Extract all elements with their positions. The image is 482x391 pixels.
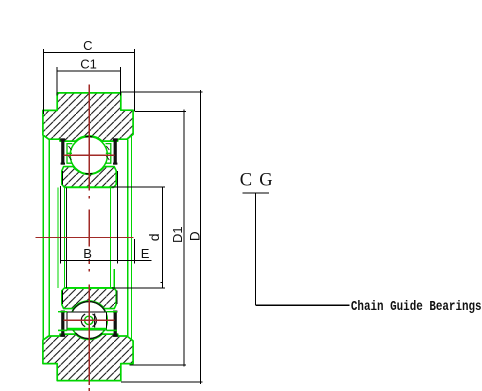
dimension B / E line: [60, 171, 151, 264]
svg-text:G: G: [259, 170, 272, 190]
svg-text:C1: C1: [80, 57, 97, 72]
inner ring upper section (hatched): [62, 167, 116, 188]
svg-text:C: C: [83, 38, 92, 53]
lower left seal: [60, 311, 65, 337]
svg-text:C: C: [240, 170, 252, 190]
svg-text:B: B: [83, 246, 92, 261]
red crosshair lower ball: [64, 319, 115, 321]
inner ring face black lines: [61, 171, 63, 185]
upper left seal: [60, 138, 65, 164]
dimension D: [121, 90, 203, 384]
upper right seal: [113, 138, 118, 164]
inner ring lower section (hatched): [62, 288, 116, 309]
svg-text:E: E: [141, 246, 150, 261]
mid-band silhouette verticals, bore right: [110, 187, 114, 287]
lower ball: [70, 302, 107, 339]
dimension d: [112, 187, 165, 288]
lower cage band: [67, 312, 106, 330]
lower rivet: [81, 314, 96, 327]
upper ball contact marks: [85, 136, 92, 138]
lower green cage side lines: [58, 311, 67, 313]
outer ring lower section (hatched): [43, 334, 133, 381]
red centerline horizontal (axis): [35, 236, 133, 238]
leader line: [242, 193, 349, 305]
upper left cage bracket: [67, 144, 72, 164]
outer ring upper section (hatched): [43, 93, 133, 141]
svg-text:d: d: [146, 233, 162, 241]
bore bottom edge (bright): [64, 287, 114, 289]
outer silhouette verticals: [43, 136, 131, 340]
upper ball: [70, 137, 107, 174]
mid-band silhouette verticals, bore left: [58, 187, 66, 287]
dimension C1: [57, 67, 120, 95]
bore top edge (bright): [64, 186, 114, 188]
dimension C: [43, 49, 134, 114]
lower right seal: [113, 311, 118, 337]
red crosshair upper ball: [64, 154, 115, 156]
svg-text:Chain Guide Bearings: Chain Guide Bearings: [351, 299, 482, 314]
svg-text:D1: D1: [170, 226, 185, 243]
upper right cage bracket: [106, 144, 111, 164]
dimension D1: [130, 110, 186, 367]
red centerline vertical (center-line dashes): [88, 85, 90, 391]
svg-text:D: D: [187, 231, 202, 241]
